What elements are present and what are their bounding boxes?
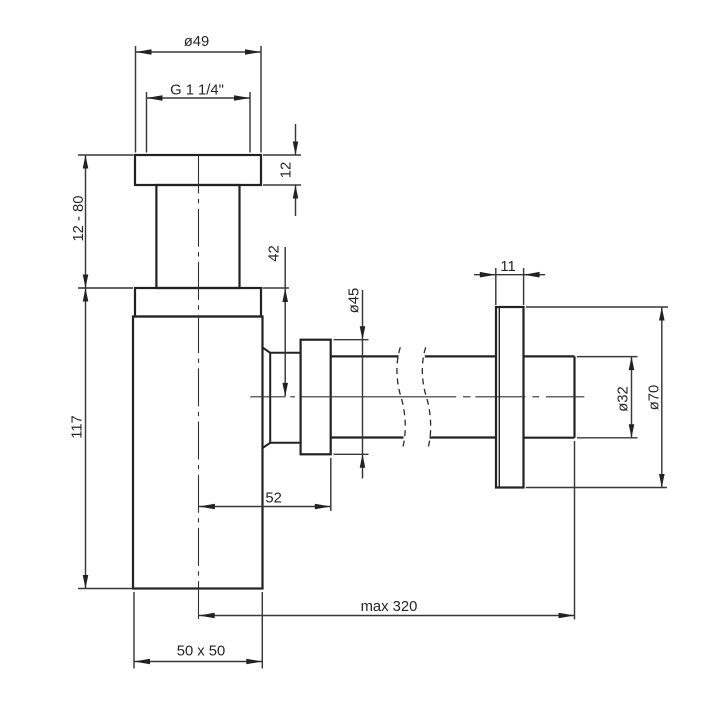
svg-text:12: 12 <box>279 162 295 178</box>
dim ø32 <box>577 357 638 438</box>
wall flange rim line <box>498 307 500 488</box>
outlet cone <box>263 348 271 449</box>
nut (ø45) <box>301 340 331 455</box>
body top flange <box>135 288 261 317</box>
dim ø45 <box>334 290 369 479</box>
svg-text:11: 11 <box>500 259 515 275</box>
svg-text:ø32: ø32 <box>616 386 632 412</box>
pipe segment 2 <box>425 355 496 357</box>
break wave 2 <box>422 347 430 447</box>
top flange (ø49) <box>135 155 261 185</box>
dim ø70 <box>526 307 668 488</box>
break wave 1 <box>397 347 405 447</box>
svg-text:117: 117 <box>69 415 85 439</box>
horizontal centerline <box>250 396 584 398</box>
dim G 1 1/4" <box>147 92 251 153</box>
dim 52 <box>199 458 331 511</box>
svg-text:ø49: ø49 <box>184 34 210 50</box>
svg-text:42: 42 <box>267 245 283 261</box>
pipe segment 1 <box>331 355 399 357</box>
svg-text:52: 52 <box>265 491 281 507</box>
dim max 320 <box>199 441 575 620</box>
trap body 50x50 <box>133 317 263 589</box>
dim 12 (flange height) <box>263 124 301 216</box>
svg-text:12 - 80: 12 - 80 <box>71 195 87 241</box>
extension line at y 288 <box>78 287 133 289</box>
svg-text:50 x 50: 50 x 50 <box>177 644 226 660</box>
dim 12 - 80 <box>78 155 134 288</box>
riser tube <box>156 185 239 288</box>
outlet neck top <box>270 352 300 354</box>
svg-text:G 1 1/4": G 1 1/4" <box>170 83 224 99</box>
svg-text:ø45: ø45 <box>347 288 363 314</box>
svg-text:ø70: ø70 <box>647 385 663 411</box>
svg-text:max 320: max 320 <box>361 599 418 615</box>
wall flange (ø70) <box>496 307 524 488</box>
outlet neck bottom <box>270 442 300 444</box>
dim ø49 <box>136 46 262 153</box>
dim 117 <box>78 288 133 589</box>
dim 42 <box>263 247 290 396</box>
dim 11 <box>474 268 545 305</box>
pipe stub (ø32) <box>524 355 575 357</box>
dim 50 x 50 <box>134 592 262 669</box>
vertical centerline <box>198 156 200 622</box>
